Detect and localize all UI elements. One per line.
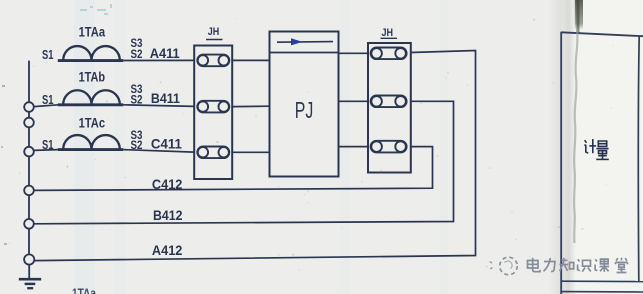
terminal JH2-3 xyxy=(371,141,407,153)
ground symbol xyxy=(19,264,41,288)
table frame top line (right page) xyxy=(561,32,643,36)
svg-text:B412: B412 xyxy=(153,207,183,223)
svg-text:1TAb: 1TAb xyxy=(79,68,106,84)
node on bus at C412 xyxy=(24,186,34,196)
meter direction arrow xyxy=(277,38,333,45)
terminal JH2-2 xyxy=(371,96,407,108)
terminal JH1-2 xyxy=(197,101,229,113)
book page edge vertical line xyxy=(560,32,562,294)
svg-text:A412: A412 xyxy=(152,242,183,258)
堂 xyxy=(616,258,628,273)
energy meter PJ xyxy=(270,32,339,177)
left common bus wire xyxy=(28,61,30,259)
terminal JH1-3 xyxy=(197,147,229,159)
table frame right column line xyxy=(637,36,640,281)
wire JH1-1 to PJ xyxy=(232,59,269,61)
知 xyxy=(560,258,574,271)
wire C411 from 1TAc S2 to terminal block JH1 xyxy=(123,150,194,153)
wire B411 from 1TAb S2 to terminal block JH1 xyxy=(123,105,194,107)
svg-text:C412: C412 xyxy=(152,176,183,192)
wire C412 loop from JH2-3 back to bus xyxy=(34,147,433,191)
svg-text:A411: A411 xyxy=(150,45,180,61)
page crease wavy line xyxy=(574,29,577,243)
heading 计量 (metering) xyxy=(584,139,609,159)
terminal JH1-1 xyxy=(197,55,229,67)
svg-text:B411: B411 xyxy=(151,90,180,106)
量 xyxy=(598,141,606,146)
wire PJ to JH2-2 xyxy=(339,100,369,102)
current transformer 1TAa xyxy=(58,46,124,61)
wire B412 loop from JH2-2 back to bus xyxy=(34,101,454,224)
svg-text:1TAa: 1TAa xyxy=(72,286,97,294)
watermark logo (电力知识课堂) xyxy=(490,257,518,275)
current transformer 1TAb xyxy=(58,90,124,105)
svg-text:S1: S1 xyxy=(42,47,54,62)
current transformer 1TAc xyxy=(58,135,124,150)
课 xyxy=(595,259,609,272)
terminal block JH2 (right) xyxy=(368,43,411,173)
计 xyxy=(585,140,587,143)
svg-text:C411: C411 xyxy=(151,135,182,151)
wire PJ to JH2-3 xyxy=(339,146,369,148)
terminal JH2-1 xyxy=(371,48,407,60)
力 xyxy=(544,258,556,272)
svg-text:JH: JH xyxy=(208,26,220,38)
svg-text:S1: S1 xyxy=(42,137,54,152)
node on bus at 1TAb S1 xyxy=(24,102,34,112)
svg-text:JH: JH xyxy=(382,27,394,39)
wire from bus to 1TAb S1 xyxy=(34,105,58,107)
terminal block JH1 (left) xyxy=(194,46,232,180)
wire JH1-2 to PJ xyxy=(232,105,269,107)
svg-text:S1: S1 xyxy=(42,92,54,107)
svg-text:1TAc: 1TAc xyxy=(79,115,106,131)
node on bus (spare) xyxy=(24,118,34,128)
wire A411 from 1TAa S2 to terminal block JH1 xyxy=(123,59,194,61)
node on bus at 1TAc S1 xyxy=(24,147,34,157)
svg-text:PJ: PJ xyxy=(295,97,314,123)
wire JH1-3 to PJ xyxy=(232,151,269,153)
wire A412 loop from JH2-1 back to bus xyxy=(34,51,475,261)
svg-text:1TAa: 1TAa xyxy=(79,23,106,39)
node on bus at B412 xyxy=(24,219,34,229)
识 xyxy=(578,259,591,271)
dark scan smudge at top of page crease xyxy=(575,0,583,30)
wire PJ to JH2-1 xyxy=(339,52,369,54)
svg-text:S2: S2 xyxy=(131,49,143,61)
电 xyxy=(528,258,541,272)
node on bus at A412 xyxy=(24,254,34,264)
wire from bus to 1TAc S1 xyxy=(34,149,58,152)
table frame bottom lines (right page) xyxy=(561,280,643,282)
